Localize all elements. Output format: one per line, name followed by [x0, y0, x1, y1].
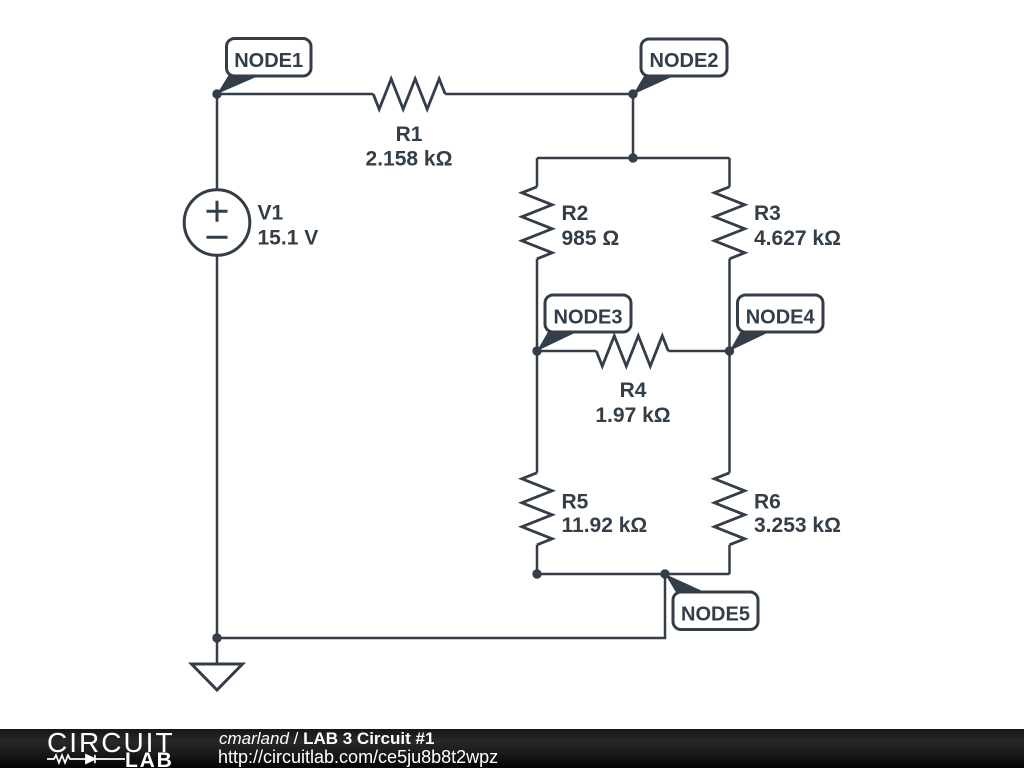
svg-text:R3: R3 [754, 202, 781, 225]
svg-text:R1: R1 [396, 123, 423, 146]
svg-text:R6: R6 [754, 491, 781, 514]
svg-text:R4: R4 [620, 379, 647, 402]
svg-text:R2: R2 [562, 202, 589, 225]
svg-text:4.627 kΩ: 4.627 kΩ [754, 227, 841, 250]
svg-text:V1: V1 [258, 201, 284, 224]
svg-text:11.92 kΩ: 11.92 kΩ [562, 514, 648, 537]
svg-text:NODE2: NODE2 [650, 50, 719, 72]
svg-text:R5: R5 [562, 491, 589, 514]
svg-text:NODE3: NODE3 [554, 307, 623, 329]
svg-text:1.97 kΩ: 1.97 kΩ [595, 404, 670, 427]
svg-text:15.1 V: 15.1 V [258, 226, 319, 249]
svg-text:NODE5: NODE5 [681, 604, 750, 626]
svg-text:985 Ω: 985 Ω [562, 227, 620, 250]
svg-text:3.253 kΩ: 3.253 kΩ [754, 514, 841, 537]
svg-text:NODE1: NODE1 [234, 50, 303, 72]
svg-text:2.158 kΩ: 2.158 kΩ [366, 147, 453, 170]
svg-text:NODE4: NODE4 [746, 307, 816, 329]
